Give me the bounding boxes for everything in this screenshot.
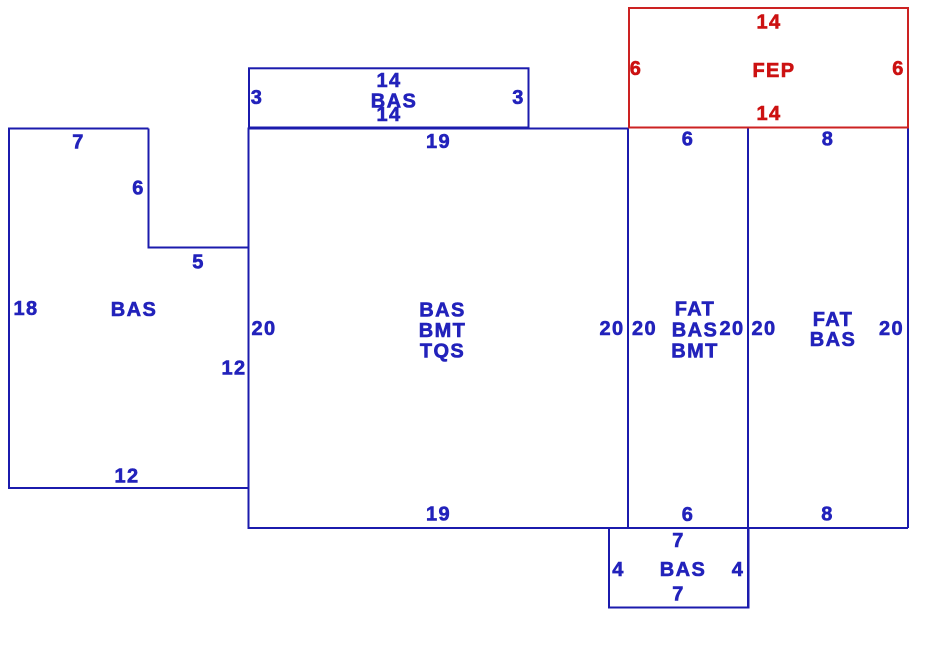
svg-text:BAS: BAS [810, 329, 856, 351]
svg-text:7: 7 [672, 584, 685, 606]
svg-text:FAT: FAT [675, 299, 716, 321]
svg-text:4: 4 [612, 559, 625, 581]
svg-text:8: 8 [821, 504, 834, 526]
svg-text:12: 12 [114, 466, 139, 488]
svg-text:6: 6 [132, 178, 145, 200]
svg-text:6: 6 [682, 504, 695, 526]
svg-text:BMT: BMT [671, 341, 719, 363]
svg-text:6: 6 [630, 58, 643, 80]
svg-text:BAS: BAS [672, 320, 718, 342]
svg-text:BAS: BAS [419, 300, 465, 322]
svg-text:18: 18 [13, 298, 38, 320]
svg-text:20: 20 [751, 318, 776, 340]
svg-text:14: 14 [376, 104, 401, 126]
svg-text:TQS: TQS [420, 341, 465, 363]
svg-text:FAT: FAT [813, 309, 854, 331]
svg-text:FEP: FEP [752, 60, 795, 82]
svg-text:5: 5 [192, 252, 205, 274]
svg-text:6: 6 [682, 129, 695, 151]
svg-text:3: 3 [251, 87, 264, 109]
FEP red rectangle outline [629, 8, 908, 128]
top small BAS rectangle outline [249, 68, 529, 127]
svg-text:4: 4 [732, 559, 745, 581]
bottom BAS rectangle outline [609, 528, 749, 608]
svg-text:14: 14 [376, 70, 401, 92]
svg-text:20: 20 [251, 318, 276, 340]
svg-text:14: 14 [756, 12, 781, 34]
svg-text:14: 14 [756, 103, 781, 125]
svg-text:3: 3 [512, 87, 525, 109]
svg-text:19: 19 [426, 504, 451, 526]
right outer edge wire [907, 129, 909, 529]
svg-text:BMT: BMT [419, 320, 467, 342]
FAT BAS BMT / FAT BAS column divider wire [747, 129, 749, 608]
svg-text:20: 20 [719, 318, 744, 340]
svg-text:12: 12 [221, 358, 246, 380]
svg-text:20: 20 [879, 318, 904, 340]
svg-text:8: 8 [822, 129, 835, 151]
svg-text:20: 20 [632, 318, 657, 340]
bottom edge of right columns wire [628, 527, 908, 529]
svg-text:BAS: BAS [111, 299, 157, 321]
left BAS polygon outline [9, 129, 249, 489]
svg-text:BAS: BAS [660, 559, 706, 581]
svg-text:20: 20 [599, 318, 624, 340]
svg-text:7: 7 [672, 530, 685, 552]
svg-text:19: 19 [426, 131, 451, 153]
central BAS BMT TQS rectangle outline [249, 129, 629, 529]
svg-text:6: 6 [892, 58, 905, 80]
svg-text:7: 7 [72, 132, 85, 154]
